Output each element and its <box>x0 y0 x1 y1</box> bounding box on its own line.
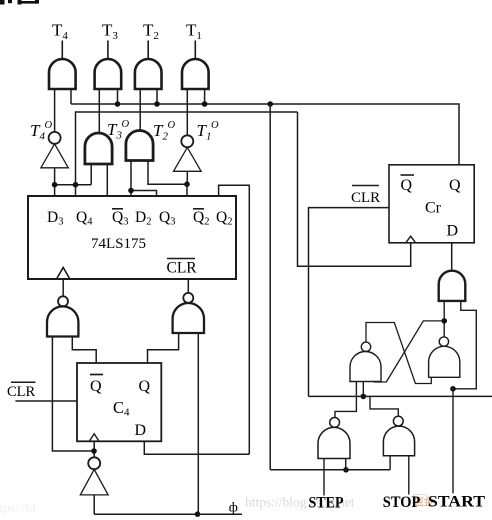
wire U3 left input2 from Qbar <box>72 337 96 364</box>
inverter T4 bubble <box>49 132 61 144</box>
wire T3 gate left input to AND output <box>98 89 100 134</box>
wire C4 clock stub <box>93 441 95 457</box>
AND gate T4 <box>49 59 76 89</box>
wire T2 gate left input to AND output <box>139 89 141 131</box>
svg-text:Q: Q <box>90 378 102 395</box>
node junction STOP net <box>361 394 367 400</box>
AND gate T1 <box>182 59 209 89</box>
inverter U4 triangle <box>80 469 108 495</box>
svg-text:CLR: CLR <box>7 384 36 400</box>
svg-text:D: D <box>135 422 147 439</box>
wire inverter U4 input stem <box>93 495 95 514</box>
NAND gate U3 right <box>173 303 204 333</box>
node junction Q2bar <box>184 181 190 187</box>
wire C4 D output elbow <box>144 441 249 454</box>
pin label Q2bar <box>193 208 204 210</box>
wire STEP right input <box>345 459 347 470</box>
node junction D3 <box>52 182 58 188</box>
clock wedge 74LS175 <box>57 268 70 280</box>
svg-text:CLR: CLR <box>351 190 380 206</box>
cropped text top-left <box>0 0 39 5</box>
IC 74LS175 box <box>28 196 236 279</box>
node junction CP drop <box>267 101 273 107</box>
pin label CLR of 74LS175 <box>167 258 195 260</box>
AND gate row2 T3 <box>85 133 112 164</box>
wire CP drop vertical <box>269 104 271 470</box>
wire C4 CLR input <box>15 400 77 402</box>
svg-text:74LS175: 74LS175 <box>91 236 146 252</box>
node junction T1-CP <box>202 101 208 107</box>
NAND gate SR left <box>350 351 381 381</box>
svg-text:D: D <box>447 223 459 240</box>
label CLRbar of C4 <box>11 381 36 383</box>
AND gate row2 T2 <box>126 131 153 161</box>
wire D3 pin stub <box>54 185 56 196</box>
NAND gate SR right <box>429 346 460 377</box>
wire D2 pin stub <box>130 191 132 197</box>
label CLRbar of Cr <box>352 185 379 187</box>
clock wedge Cr <box>406 236 416 243</box>
wire SR right output cross <box>374 321 444 382</box>
wire U3 right input2 long <box>197 333 199 514</box>
label Qbar of C4 <box>90 374 103 376</box>
wire Q4 pin stub <box>75 185 77 196</box>
wire T4 gate right input to bus <box>70 89 72 104</box>
wire STEP left input <box>323 459 325 496</box>
NAND gate STOP <box>383 426 414 456</box>
NAND gate STEP <box>318 427 350 458</box>
node junction D2 <box>128 188 134 194</box>
wire U2 left input from SR <box>443 301 445 337</box>
svg-text:Q: Q <box>139 378 151 395</box>
wire 74LS175 clock stub <box>62 279 64 296</box>
wire bus Q4 down to Cr clock <box>298 112 411 266</box>
NAND gate SR right bubble <box>439 337 448 346</box>
AND gate U2 below Cr <box>439 271 466 301</box>
AND gate T3 <box>95 59 122 89</box>
wire CP to step/stop horizontal <box>270 469 390 471</box>
node junction SR cross <box>441 318 447 324</box>
NAND gate U3 right bubble <box>183 293 193 303</box>
wire stem from label T4 <box>61 41 63 61</box>
wire bus Q4 horizontal <box>76 112 298 185</box>
clock wedge C4 <box>89 434 99 442</box>
svg-text:ф: ф <box>229 501 238 516</box>
wire D2-Q3 net <box>131 191 157 197</box>
node junction T3-CP <box>115 101 121 107</box>
wire stem from label T1 <box>194 41 196 61</box>
svg-text:Q: Q <box>401 177 413 194</box>
inverter T1 triangle <box>174 147 202 171</box>
wire row2 T2 right input elbow <box>148 161 187 185</box>
wire Cr CLR input <box>309 208 390 397</box>
wire stem from label T2 <box>147 41 149 61</box>
wire T4 gate left input to inverter <box>54 89 56 132</box>
wire stem from label T3 <box>107 41 109 61</box>
wire SR left input2 to bus <box>362 382 364 397</box>
wire U2 right input elbow <box>453 301 476 389</box>
pin label Q3bar <box>112 208 123 210</box>
NAND gate U3 left <box>47 306 78 336</box>
node junction STEP-CP <box>343 467 349 473</box>
NAND gate U3 left bubble <box>58 296 68 306</box>
flip-flop Cr box <box>389 165 474 243</box>
wire 74LS175 CLR stub <box>187 279 189 293</box>
inverter U4 bubble <box>88 457 100 469</box>
wire STOP left input <box>389 456 391 470</box>
wire phi horizontal <box>94 513 242 515</box>
label Qbar of Cr <box>401 174 415 176</box>
node junction START net <box>450 386 456 392</box>
flip-flop C4 box <box>77 363 161 441</box>
svg-text:STOP: STOP <box>383 494 421 511</box>
wire SR left input1 from STEP <box>335 382 356 418</box>
wire row2 T2 left input <box>130 161 132 191</box>
wire STOP net horizontal <box>309 395 492 397</box>
wire U3 left input1 long <box>52 337 94 452</box>
svg-text:START: START <box>428 494 485 511</box>
svg-text:Cr: Cr <box>425 200 442 217</box>
wire row2 T3 left input <box>90 164 92 185</box>
svg-text:Q: Q <box>449 177 461 194</box>
wire T1 gate left input to inverter <box>186 89 188 136</box>
NAND gate SR left bubble <box>361 342 370 351</box>
svg-text:CLR: CLR <box>167 260 198 277</box>
inverter T4 triangle <box>41 144 68 168</box>
inverter T1 bubble <box>181 135 193 147</box>
node junction Q4 <box>73 182 79 188</box>
wire T1 gate right input <box>204 89 206 104</box>
wire T3 gate right input <box>117 89 119 104</box>
wire row2 T3 right input to Q3bar pin <box>106 164 108 196</box>
wire U3 right input1 from Q <box>148 333 179 363</box>
node junction T2-CP <box>154 101 160 107</box>
wire D3-Q4 net horizontal <box>55 184 92 186</box>
NAND gate STOP bubble <box>393 416 403 426</box>
NAND gate STEP bubble <box>330 418 340 428</box>
wire STOP output elbow <box>370 396 398 416</box>
wire inverter T4 input stem <box>54 168 56 185</box>
svg-text:STEP: STEP <box>309 495 344 512</box>
wire bus CP horizontal <box>71 104 459 165</box>
wire STOP right input <box>408 456 410 495</box>
wire Q2bar pin stub <box>186 184 188 196</box>
wire SR left output cross <box>366 323 431 384</box>
wire Q2 pin elbow to right <box>219 185 250 454</box>
wire Cr D input <box>451 243 453 271</box>
wire START vertical <box>452 389 454 494</box>
AND gate T2 <box>135 59 162 89</box>
svg-text:ttps://bl: ttps://bl <box>0 500 36 515</box>
wire T2 gate right input <box>156 89 158 104</box>
wire inverter T1 input stem <box>186 171 188 184</box>
node junction phi <box>195 511 201 517</box>
node junction C4 clock <box>91 448 97 454</box>
